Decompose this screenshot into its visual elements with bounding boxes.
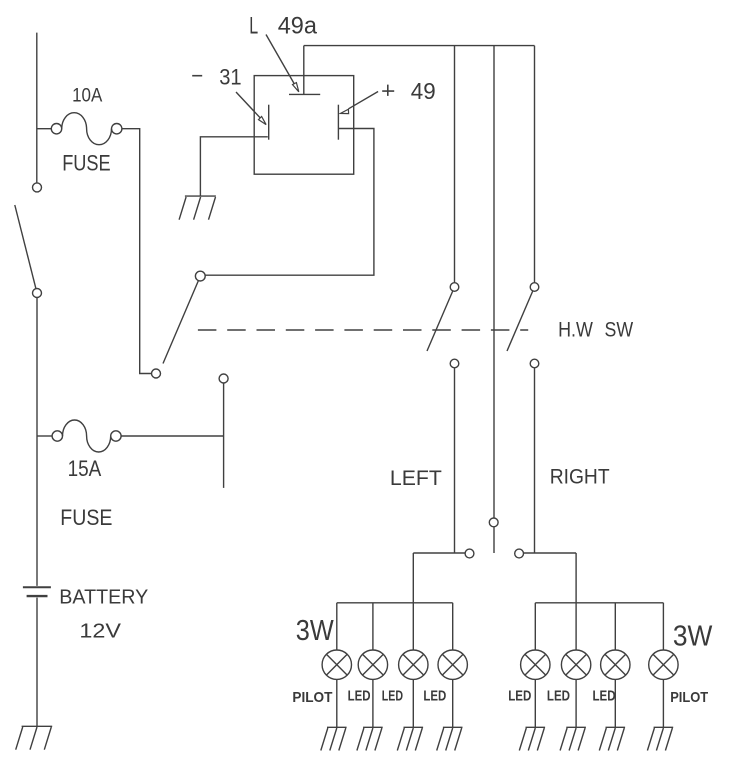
wire lamp L1 to ground: [336, 679, 338, 727]
ground lamp R1: [519, 727, 545, 750]
wire drop lamp R3: [614, 603, 616, 650]
svg-text:LED: LED: [348, 687, 371, 704]
ground lamp L1: [321, 727, 347, 750]
wire drop lamp L2: [372, 603, 374, 650]
relay terminal 49a: [289, 46, 320, 95]
svg-text:LED: LED: [547, 687, 570, 704]
wire lamp R2 to ground: [575, 679, 577, 727]
wire lamp R1 to ground: [534, 679, 536, 727]
svg-text:LEFT: LEFT: [390, 466, 442, 490]
battery BT1 12V: [23, 587, 51, 596]
wire left contact to left lamp feed: [413, 552, 465, 554]
svg-text:SW: SW: [605, 318, 634, 341]
selector switch S2b: [465, 518, 523, 558]
wire right contact to right lamp feed: [524, 552, 577, 554]
leader arrow L 49a: [266, 35, 299, 92]
ground lamp L4: [437, 727, 463, 750]
wire hazard left to selector left contact: [454, 368, 456, 553]
lamp L2 LED: [358, 650, 387, 679]
wire F2 to turn switch feed: [121, 435, 224, 437]
svg-text:LED: LED: [382, 687, 403, 704]
svg-text:31: 31: [219, 65, 241, 90]
hazard switch S3 left pole: [427, 283, 459, 368]
svg-text:15A: 15A: [68, 456, 102, 481]
wire lamp R4 to ground: [662, 679, 664, 727]
svg-text:L: L: [249, 13, 258, 40]
ground relay 31: [179, 196, 216, 220]
relay U1 flasher box: [254, 76, 354, 175]
wire left lamp bus: [337, 602, 453, 604]
wire to hazard left pole: [454, 46, 456, 283]
relay terminal 31 plate: [268, 105, 270, 140]
svg-text:PILOT: PILOT: [292, 690, 332, 706]
svg-text:RIGHT: RIGHT: [550, 464, 610, 489]
lamp R3 LED: [601, 650, 630, 679]
wire relay 49a distribution bus: [304, 45, 535, 47]
hazard switch S3 right pole: [507, 283, 539, 368]
wire terminal 31 to ground: [200, 137, 267, 196]
svg-text:FUSE: FUSE: [60, 505, 112, 530]
lamp R1 LED: [521, 650, 550, 679]
wire drop lamp L4: [452, 603, 454, 650]
turn signal switch S2: [152, 271, 229, 488]
ground lamp L2: [357, 727, 383, 750]
fuse F2 15A: [37, 420, 121, 452]
svg-text:PILOT: PILOT: [670, 690, 708, 706]
wire left lamp feed: [412, 553, 414, 650]
leader arrow minus 31: [236, 92, 266, 125]
ground battery: [16, 726, 53, 749]
svg-text:LED: LED: [423, 687, 446, 704]
lamp R2 LED: [561, 650, 590, 679]
svg-text:3W: 3W: [673, 620, 713, 652]
lamp L4 LED: [438, 650, 467, 679]
minus sign of label 31: [192, 75, 202, 77]
wire drop lamp L1: [336, 603, 338, 650]
fuse F1 10A: [37, 113, 122, 145]
wire F1 to turn switch contact: [122, 129, 152, 374]
svg-text:49a: 49a: [278, 13, 318, 40]
lamp L3 LED: [399, 650, 428, 679]
svg-text:LED: LED: [593, 687, 616, 704]
svg-text:FUSE: FUSE: [62, 150, 110, 175]
svg-text:12V: 12V: [79, 621, 121, 643]
wire S1 to battery: [36, 298, 38, 586]
wire lamp L3 to ground: [412, 679, 414, 727]
ground lamp R4: [647, 727, 673, 750]
wire battery negative to ground: [36, 598, 38, 727]
wire right lamp bus: [535, 602, 663, 604]
svg-text:H.W: H.W: [558, 318, 593, 341]
lamp R4 PILOT: [649, 650, 678, 679]
svg-text:LED: LED: [508, 687, 531, 704]
plus sign of label 49: [382, 85, 394, 96]
relay terminal 49 plate: [337, 105, 339, 140]
ground lamp L3: [397, 727, 423, 750]
wire right lamp feed: [575, 553, 577, 650]
wire drop lamp R4: [662, 603, 664, 650]
wire lamp L4 to ground: [452, 679, 454, 727]
switch S1: [15, 183, 42, 298]
svg-text:3W: 3W: [296, 614, 334, 646]
wire lamp R3 to ground: [614, 679, 616, 727]
ground lamp R2: [560, 727, 586, 750]
wire to selector center pole: [493, 46, 495, 518]
leader arrow plus 49: [341, 92, 379, 114]
mechanical link dashed: [198, 329, 528, 331]
svg-text:49: 49: [411, 78, 436, 104]
svg-text:10A: 10A: [72, 84, 102, 106]
wire battery positive riser: [36, 33, 38, 183]
ground lamp R3: [599, 727, 625, 750]
wire lamp L2 to ground: [372, 679, 374, 727]
wire hazard right to selector right contact: [534, 368, 536, 553]
wire to hazard right pole: [534, 46, 536, 283]
wire terminal 49 to turn switch pivot: [205, 129, 374, 276]
svg-text:BATTERY: BATTERY: [59, 585, 148, 608]
lamp L1 PILOT: [322, 650, 351, 679]
wire drop lamp R1: [534, 603, 536, 650]
